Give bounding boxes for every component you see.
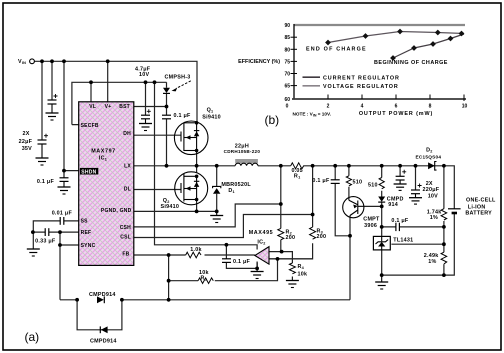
- svg-text:LX: LX: [124, 164, 131, 170]
- svg-text:CURRENT REGULATOR: CURRENT REGULATOR: [323, 75, 400, 81]
- ground below R4: [286, 281, 299, 288]
- diode D2 EC15QS04 series: [428, 162, 436, 171]
- transistor Q3 CMPT3906 PNP: [343, 197, 364, 218]
- svg-text:(b): (b): [265, 113, 280, 127]
- svg-text:8: 8: [429, 104, 432, 110]
- svg-text:0.1 μF: 0.1 μF: [312, 178, 330, 184]
- capacitor input 22uF no.1 (polarized): [38, 140, 47, 158]
- x-axis ticks: [328, 95, 464, 102]
- svg-text:1.0k: 1.0k: [190, 247, 202, 253]
- resistor R3 200: [310, 227, 316, 239]
- svg-text:2: 2: [327, 104, 330, 110]
- wire op-amp in- line: [269, 258, 313, 260]
- resistor 510 no.1: [346, 176, 351, 186]
- capacitor 0.1uF op-amp bypass: [222, 259, 231, 263]
- diamond markers end-of-charge: [325, 29, 464, 46]
- svg-text:VL: VL: [89, 104, 96, 110]
- transistor Q1 Si9410 MOSFET: [174, 121, 208, 155]
- wire VL node line: [72, 82, 167, 124]
- capacitor 4.7uF VL bypass (polarized): [141, 115, 150, 123]
- resistor R5 10k feedback: [198, 278, 213, 284]
- wire DH pin to Q1 gate: [134, 134, 181, 136]
- wire TL1431 ref line: [391, 243, 444, 245]
- wire output cap no.1 column: [399, 166, 401, 177]
- svg-text:0: 0: [286, 104, 289, 110]
- wire op-amp in+ line: [269, 252, 292, 263]
- svg-text:(a): (a): [25, 330, 40, 344]
- wire BST pin line: [134, 106, 167, 108]
- diamond markers beginning-of-charge: [390, 36, 453, 61]
- svg-text:90: 90: [284, 23, 290, 29]
- wire input cap C1 column: [41, 61, 43, 140]
- wire FB node vertical: [168, 255, 170, 300]
- capacitor 0.1uF BST boost: [162, 115, 171, 119]
- wire R4 to ground: [291, 277, 293, 281]
- diode D1 MBR0520L catch diode: [213, 186, 221, 193]
- wire SYNC pin tie to REF: [60, 232, 79, 300]
- svg-text:TL1431: TL1431: [393, 238, 413, 244]
- svg-text:MAX797: MAX797: [91, 149, 116, 155]
- svg-text:CMPT: CMPT: [363, 217, 380, 223]
- wire BST cap column to LX: [166, 107, 168, 166]
- resistor R4 10k: [289, 263, 295, 274]
- wire bottom clamp line REF to FB to Q3 collector: [60, 299, 350, 301]
- svg-text:ONE-CELL: ONE-CELL: [466, 198, 496, 204]
- wire LX line to inductor: [134, 165, 235, 167]
- ground below input cap no.1: [36, 158, 49, 165]
- wire D3 cathode to TL1431: [381, 202, 383, 236]
- svg-text:BEGINNING OF CHARGE: BEGINNING OF CHARGE: [374, 60, 448, 66]
- wire input cap C2 column: [51, 61, 53, 100]
- resistor R2 200: [278, 228, 284, 239]
- svg-text:V+: V+: [105, 104, 112, 110]
- svg-text:DH: DH: [123, 131, 131, 137]
- wire DL pin to Q2 gate: [134, 189, 181, 191]
- svg-text:80: 80: [284, 47, 290, 53]
- wire Q3 collector column: [349, 218, 351, 300]
- svg-text:OUTPUT POWER (mW): OUTPUT POWER (mW): [359, 111, 433, 117]
- svg-text:CMPD914: CMPD914: [89, 292, 116, 298]
- wire op-amp bypass cap column: [226, 245, 257, 269]
- capacitor output 220uF no.2 (polarized): [411, 190, 420, 198]
- wire battery branch: [382, 166, 455, 275]
- transistor Q2 Si9410 MOSFET: [175, 172, 208, 205]
- svg-text:EC15QS04: EC15QS04: [416, 155, 442, 160]
- wire D1 column LX to ground: [216, 166, 218, 212]
- wire R5 feedback line: [169, 259, 278, 281]
- curve: end-of-charge (voltage regulator, gray): [328, 32, 464, 43]
- svg-text:70: 70: [284, 72, 290, 78]
- svg-text:CSH: CSH: [120, 225, 131, 231]
- svg-text:CMPSH-3: CMPSH-3: [165, 75, 191, 81]
- wire diode pair bottom loop: [77, 300, 122, 330]
- x-axis labels: [286, 104, 468, 110]
- op-amp IC2 MAX495: [255, 247, 269, 265]
- svg-text:Li-ION: Li-ION: [468, 204, 486, 210]
- svg-text:BATTERY: BATTERY: [465, 211, 492, 217]
- svg-text:FB: FB: [122, 252, 129, 258]
- graph top gridline (90%): [294, 24, 466, 26]
- svg-text:510: 510: [368, 183, 378, 189]
- wire 4.7uF column: [145, 82, 147, 115]
- svg-text:VOLTAGE REGULATOR: VOLTAGE REGULATOR: [323, 84, 399, 90]
- svg-text:SYNC: SYNC: [81, 243, 96, 249]
- IC1 pin labels: [81, 104, 132, 257]
- svg-text:REF: REF: [81, 230, 92, 236]
- wire output cap no.2 column: [415, 166, 417, 190]
- diode D3 CMPD914: [378, 197, 385, 203]
- graph y-axis: [293, 24, 295, 100]
- capacitor 0.01uF soft-start: [60, 217, 64, 225]
- svg-text:4: 4: [361, 104, 364, 110]
- svg-text:Si9410: Si9410: [202, 115, 221, 121]
- svg-text:0.33 μF: 0.33 μF: [35, 239, 56, 245]
- wire R1 right vertical to R3: [269, 166, 313, 259]
- svg-text:200: 200: [317, 234, 327, 240]
- svg-text:EFFICIENCY (%): EFFICIENCY (%): [238, 59, 280, 65]
- legend line voltage regulator: [303, 85, 321, 87]
- svg-text:35V: 35V: [22, 146, 32, 152]
- svg-text:1%: 1%: [428, 259, 436, 265]
- graph x-axis: [292, 98, 466, 100]
- wire inductor to sense resistor R1: [258, 165, 444, 167]
- wire VIN rail to Q1 drain: [35, 61, 198, 123]
- svg-text:CDRH105B-220: CDRH105B-220: [224, 149, 261, 154]
- inductor L1 22uH CDRH105B-220: [235, 159, 258, 166]
- capacitor 0.1uF output filter: [331, 180, 340, 184]
- curve: beginning-of-charge (current regulator, dark): [393, 34, 464, 58]
- svg-text:22μF: 22μF: [19, 139, 33, 145]
- ground below TL1431: [375, 275, 388, 289]
- svg-text:6: 6: [395, 104, 398, 110]
- wire PGND/GND line: [134, 210, 217, 212]
- wire Q3 base to D3 cathode node: [358, 205, 382, 207]
- svg-text:MAX495: MAX495: [249, 230, 274, 236]
- svg-text:510: 510: [353, 180, 363, 186]
- svg-text:0.1 μF: 0.1 μF: [37, 179, 55, 185]
- wire CSL kelvin line: [134, 215, 313, 238]
- wire Q2 source to GND line: [196, 200, 198, 212]
- svg-text:SECFB: SECFB: [81, 123, 99, 129]
- svg-text:0.1 μF: 0.1 μF: [233, 259, 251, 265]
- capacitor 0.33uF REF bypass: [45, 228, 49, 236]
- svg-text:Si9410: Si9410: [161, 204, 180, 210]
- svg-text:2X: 2X: [23, 131, 30, 137]
- diode pair top CMPD914: [97, 296, 104, 303]
- wire CMPSH-3 column VL to BST: [166, 82, 168, 106]
- wire 0.1uF coupling line: [382, 226, 444, 228]
- svg-text:SHDN: SHDN: [81, 170, 96, 176]
- svg-text:60: 60: [284, 97, 290, 103]
- wire REF pin line: [33, 231, 79, 233]
- y-axis ticks: [291, 37, 298, 85]
- svg-text:END OF CHARGE: END OF CHARGE: [306, 47, 367, 53]
- wire 510 no.1 to Q3 emitter: [348, 166, 350, 198]
- svg-text:MBR0520L: MBR0520L: [221, 182, 251, 188]
- capacitor input 22uF no.2 (polarized): [48, 100, 57, 113]
- svg-text:75: 75: [284, 59, 290, 65]
- svg-text:3906: 3906: [364, 223, 377, 229]
- svg-text:200: 200: [286, 235, 296, 241]
- ground below D1 on PGND line: [210, 211, 223, 222]
- wire SS/REF ground column: [32, 232, 34, 249]
- legend line current regulator: [303, 76, 321, 78]
- svg-text:10V: 10V: [139, 72, 149, 78]
- svg-text:PGND, GND: PGND, GND: [101, 208, 132, 214]
- svg-text:0.01 μF: 0.01 μF: [52, 211, 73, 217]
- wire CSH kelvin line: [134, 204, 281, 227]
- wire VIN to SHDN: [64, 61, 79, 170]
- wire Q2 drain from LX: [196, 166, 198, 173]
- svg-text:0.1 μF: 0.1 μF: [174, 113, 192, 119]
- capacitor 0.1uF on SHDN node: [60, 171, 69, 187]
- diode CMPSH-3 boost diode: [163, 88, 170, 94]
- wire SS pin line: [33, 221, 78, 232]
- svg-text:220μF: 220μF: [423, 187, 440, 193]
- ground below 220uF no.2: [409, 198, 422, 204]
- svg-text:914: 914: [388, 202, 398, 208]
- svg-text:0.1 μF: 0.1 μF: [391, 218, 409, 224]
- y-axis labels: [284, 23, 290, 103]
- wire Q1 source to LX: [196, 151, 198, 166]
- IC1 MAX797 body: [79, 102, 134, 266]
- op-amp V- stub: [256, 262, 258, 269]
- battery one-cell: [448, 209, 461, 213]
- capacitor 0.1uF TL1431 coupling: [396, 223, 400, 231]
- resistor 510 no.2: [379, 178, 384, 189]
- wire TL1431 anode to ground rail: [381, 249, 383, 275]
- svg-text:SS: SS: [81, 219, 89, 225]
- ground below SS/REF caps: [27, 249, 40, 256]
- wire op-amp V- to ground: [256, 263, 258, 272]
- wire output 0.1uF column to Q3 collector: [335, 166, 350, 236]
- VIN input terminal: [30, 59, 35, 64]
- wire 510 no.2 column: [381, 166, 383, 197]
- wire divider column 1.74k/2.49k: [443, 166, 445, 275]
- resistor 2.49k: [441, 252, 447, 264]
- svg-text:65: 65: [284, 84, 290, 90]
- svg-text:10k: 10k: [298, 272, 308, 278]
- resistor R1 0.05 sense: [291, 163, 304, 169]
- svg-text:DL: DL: [124, 187, 131, 193]
- ground below SHDN cap: [58, 187, 71, 194]
- resistor 1.74k: [441, 209, 447, 220]
- capacitor output 220uF no.1 (polarized): [396, 176, 405, 184]
- svg-text:CMPD914: CMPD914: [90, 339, 117, 345]
- shunt regulator TL1431: [373, 236, 390, 250]
- svg-text:CSL: CSL: [120, 235, 131, 241]
- wire FB to op-amp output: [134, 254, 255, 256]
- svg-text:10: 10: [462, 104, 468, 110]
- wire VL pin stub: [90, 82, 92, 102]
- wire VL feed to op-amp supply: [155, 82, 258, 249]
- ground below input cap no.2: [46, 113, 59, 120]
- annotation arrow to CMPSH-3: [172, 81, 191, 92]
- diode pair bottom CMPD914: [100, 326, 107, 333]
- ground below op-amp: [251, 272, 264, 279]
- ground below 220uF no.1: [394, 184, 407, 190]
- resistor 1.0k op-amp output: [186, 252, 201, 258]
- svg-text:10V: 10V: [428, 194, 438, 200]
- svg-text:1%: 1%: [430, 215, 438, 221]
- wire R1 left vertical to R2: [280, 166, 282, 252]
- ground below 4.7uF: [139, 124, 152, 131]
- svg-text:85: 85: [284, 35, 290, 41]
- svg-text:BST: BST: [119, 104, 130, 110]
- IC1 SHDN inverted pin tab: [80, 168, 98, 175]
- wire V+ pin to rail: [107, 61, 109, 102]
